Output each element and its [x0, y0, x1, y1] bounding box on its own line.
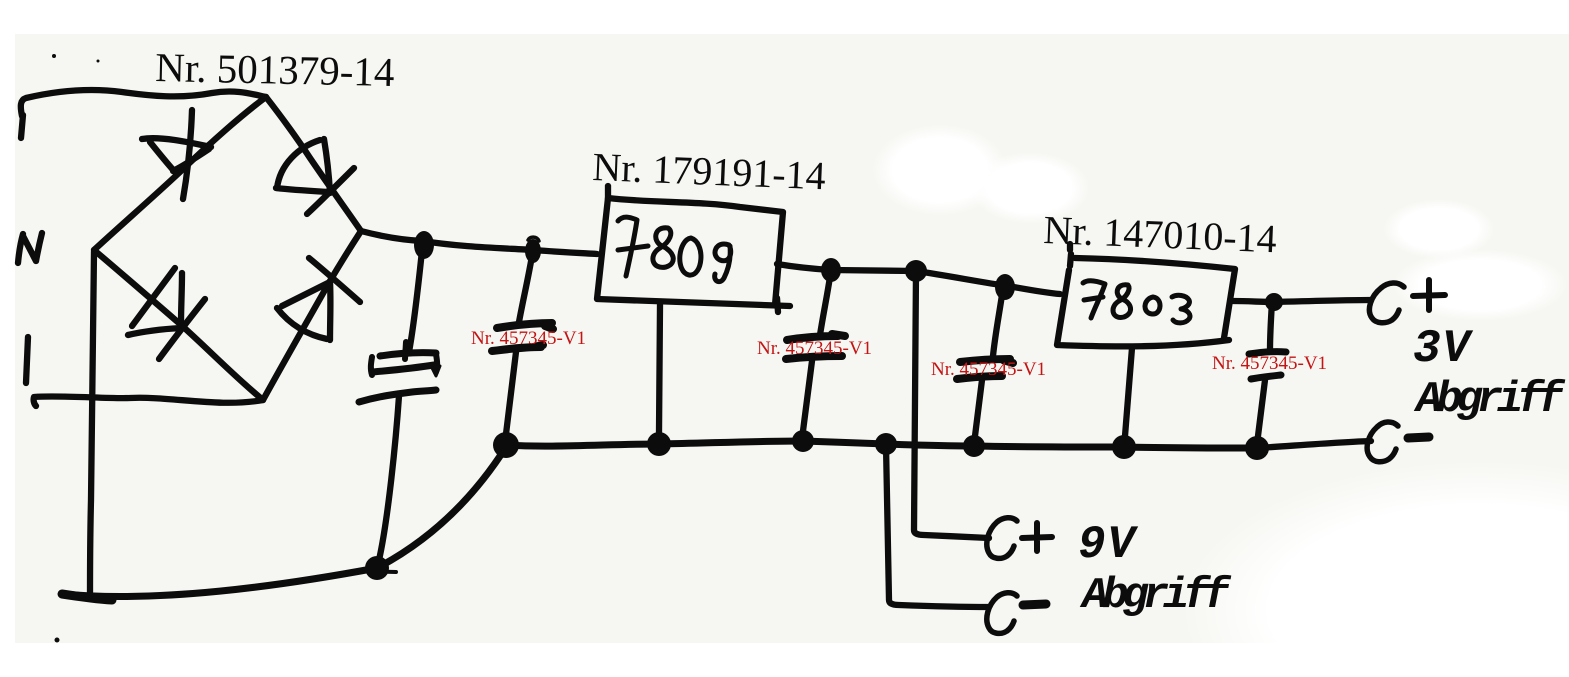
capacitor C2 plate 1: [497, 323, 553, 329]
bridge rectifier edge left-bottom: [94, 250, 263, 400]
junction dot B1: [493, 432, 519, 458]
capacitor C3 lead bottom: [803, 361, 812, 431]
junction dot J7: [1265, 293, 1283, 311]
capacitor C5 plate 2: [1251, 375, 1281, 379]
capacitor C5 lead top: [1270, 302, 1272, 350]
svg-text:Nr. 457345-V1: Nr. 457345-V1: [471, 328, 586, 349]
wire 9V minus tap: [886, 445, 989, 607]
junction dot B3: [792, 430, 814, 452]
capacitor C1 plate 1 (box): [380, 353, 436, 356]
svg-text:9V: 9V: [1078, 519, 1139, 571]
digits 7803 inside U2: [1083, 281, 1190, 323]
terminal C+ 9V glyph: [987, 518, 1017, 559]
white-out patch right of C+ 3V: [1392, 249, 1568, 321]
capacitor C5 plate 1: [1249, 352, 1286, 354]
diode D1 top-left arm: [142, 110, 211, 199]
wire bus to C- 3V terminal: [1257, 441, 1371, 448]
regulator U1 ground stem: [659, 305, 660, 433]
wire bridge left vertex down: [90, 252, 94, 596]
junction dot J2: [525, 239, 541, 263]
junction dot B4: [875, 433, 897, 455]
svg-text:Nr. 457345-V1: Nr. 457345-V1: [931, 359, 1046, 380]
junction dot B2: [647, 432, 671, 456]
wire node J7 to C+ 3V terminal: [1274, 300, 1371, 302]
terminal C- 9V glyph: [987, 593, 1017, 634]
capacitor C4 lead top: [993, 295, 1002, 356]
svg-text:Nr. 501379-14: Nr. 501379-14: [155, 44, 395, 95]
svg-text:Abgriff: Abgriff: [1413, 375, 1566, 425]
bridge rectifier edge top-right: [266, 97, 361, 231]
wire node J4 to node J5: [916, 271, 1008, 286]
svg-text:Nr. 457345-V1: Nr. 457345-V1: [1212, 353, 1327, 374]
terminal tick L: [21, 115, 23, 138]
diode D4 bottom-right arm: [277, 258, 360, 340]
capacitor C3 plate 1: [787, 334, 845, 340]
terminal tick L2: [26, 337, 28, 383]
paper speck 1: [52, 54, 56, 58]
capacitor C3 lead top: [820, 270, 831, 335]
wire mains bottom input from bridge bottom vertex: [34, 396, 263, 406]
capacitor C2 plate 2: [492, 345, 543, 351]
wire node J2 to 7809 input: [533, 250, 597, 254]
junction dot J1: [414, 231, 434, 259]
regulator U2 ground stem: [1125, 348, 1132, 436]
capacitor C2 lead bottom: [506, 352, 516, 434]
capacitor C4 plate 1: [960, 359, 1013, 363]
white-out patch bottom right: [1180, 460, 1569, 677]
junction dot B7: [1245, 436, 1269, 460]
diode D3 bottom-left arm: [128, 268, 205, 359]
regulator U1 output wire to node J3: [777, 264, 831, 270]
junction dot B5: [963, 435, 985, 457]
junction dot J3: [821, 258, 841, 282]
regulator U2 output wire to node J7: [1233, 301, 1274, 302]
svg-text:Nr. 457345-V1: Nr. 457345-V1: [757, 338, 872, 359]
junction dot J5: [995, 274, 1015, 300]
bridge rectifier edge right-bottom: [263, 231, 361, 400]
bridge rectifier edge left-top: [94, 97, 266, 250]
junction dot J8: [365, 556, 389, 580]
wire bottom return thick end: [62, 594, 112, 600]
digits 7809 inside U1: [618, 217, 731, 282]
capacitor C2 lead top: [519, 250, 533, 322]
capacitor C1 lead bottom: [379, 396, 399, 560]
capacitor C1 lead top: [409, 241, 423, 352]
terminal C+ 3V glyph: [1369, 283, 1404, 323]
junction dot J4: [905, 260, 927, 282]
junction dot B6: [1112, 435, 1136, 459]
terminal C- 3V glyph: [1367, 422, 1398, 462]
svg-text:Nr. 147010-14: Nr. 147010-14: [1043, 207, 1278, 261]
wire node J1 to node J2: [423, 241, 533, 250]
paper speck 3: [55, 638, 60, 643]
wire bottom return curve: [62, 447, 506, 596]
wire 9V plus tap: [914, 271, 989, 538]
wire bridge output to node J1: [361, 231, 423, 241]
wire ground bus B1-B7: [506, 441, 1257, 448]
diode D2 top-right arm: [276, 139, 354, 214]
svg-text:Nr. 179191-14: Nr. 179191-14: [592, 144, 827, 198]
white-out patch upper middle: [872, 124, 1008, 216]
capacitor C5 lead bottom: [1258, 380, 1265, 436]
paper speck 2: [97, 60, 100, 63]
capacitor C4 lead bottom: [975, 380, 982, 436]
regulator U2 7803 box: [1057, 258, 1235, 346]
wire node J5 to 7803 input: [1008, 286, 1060, 294]
terminal label N: [18, 233, 42, 263]
wire node J3 to node J4: [831, 270, 916, 271]
wire mains top input to bridge top vertex: [21, 90, 266, 116]
capacitor C4 plate 2: [957, 376, 1002, 379]
svg-text:Abgriff: Abgriff: [1079, 571, 1232, 621]
capacitor C1 plate 2: [359, 390, 436, 402]
svg-text:3V: 3V: [1413, 323, 1474, 375]
capacitor C3 plate 2: [786, 356, 842, 359]
regulator U1 7809 box: [597, 198, 790, 306]
white-out patch upper right blob: [1383, 199, 1495, 259]
